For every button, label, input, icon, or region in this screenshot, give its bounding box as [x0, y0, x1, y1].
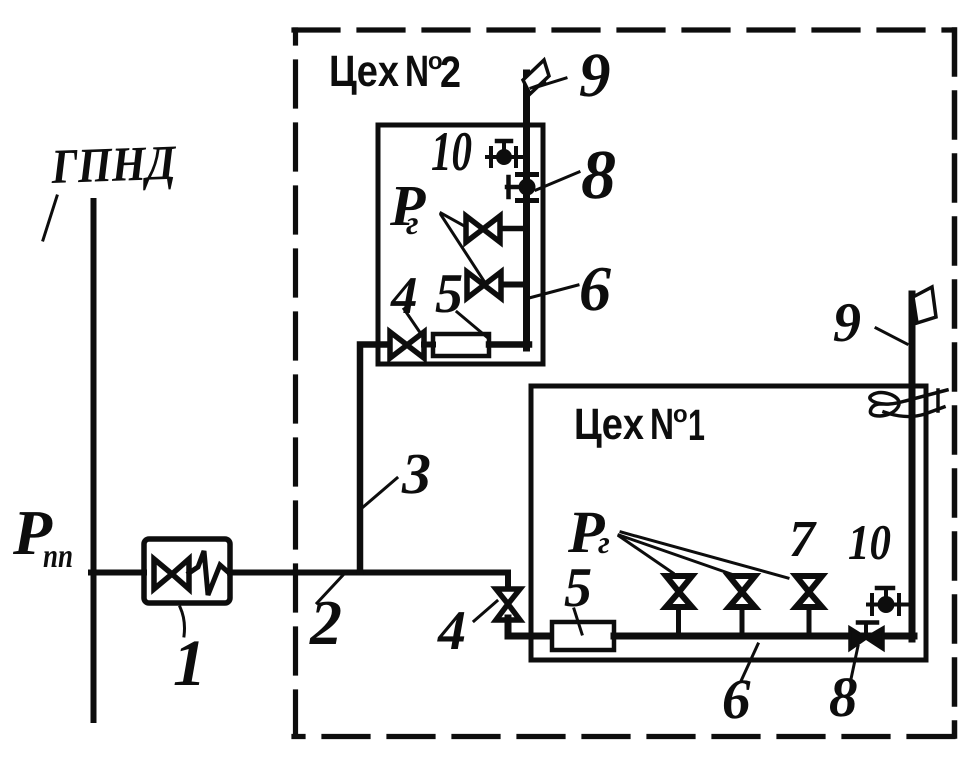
purge cock 10 of shop No1 (T-handle cock on riser stub)	[868, 588, 910, 614]
leader line to label 8 shop No2	[536, 172, 579, 190]
label Цех №2	[332, 56, 460, 95]
label 6 (shop No2)	[581, 268, 611, 311]
burner valve 2 of shop No1	[729, 576, 755, 633]
meter 5 of shop No2	[424, 334, 489, 356]
label Цех №1	[577, 409, 705, 448]
leader lines from Рг to burner valves shop No2	[441, 213, 484, 281]
wire: gas main ГПНД vertical pipe	[91, 201, 97, 720]
label 8 (shop No2)	[582, 151, 615, 198]
building outline shop No1	[531, 386, 926, 660]
wire: shop No2 internal pipe from meter to riser	[489, 341, 529, 348]
leader lines from Рг to burner valves shop No1	[619, 532, 788, 578]
leader line to label 9 shop No1	[876, 328, 907, 344]
wire: riser pipe 3 to shop No2	[360, 345, 390, 573]
label Рг shop No1	[568, 513, 609, 554]
label 5 (shop No1)	[565, 569, 591, 606]
leader line to meter 5 shop No1	[574, 609, 582, 634]
leader line to label 6 shop No1	[741, 644, 758, 681]
valve 4 of shop No1 (hourglass on inlet drop)	[496, 589, 520, 620]
leader line to label 8 shop No1	[851, 646, 858, 679]
label Рпп	[13, 512, 72, 567]
building outline shop No2	[378, 125, 543, 364]
wire: main horizontal pipe 2 from regulator to shop branch	[230, 573, 508, 591]
label 1	[175, 641, 200, 685]
regulator station 1 (box with valve and regulator zigzag)	[144, 539, 230, 603]
leader line to label 9 shop No2	[537, 78, 566, 87]
leader line to meter 5 shop No2	[457, 312, 488, 338]
label 9 (shop No1)	[834, 304, 860, 342]
label 8 (shop No1)	[830, 678, 857, 717]
wire: shop No1 floor distribution pipe 6	[614, 633, 914, 640]
leader line to label 2	[317, 573, 345, 603]
label 2	[309, 602, 340, 644]
label 6 (shop No1)	[724, 680, 751, 718]
leader line to valve 4 shop No2	[404, 309, 419, 331]
valve 4 of shop No2 (bowtie on inlet)	[390, 332, 424, 358]
label 5 (shop No2)	[436, 275, 462, 312]
leader line to label 1	[180, 607, 185, 636]
label 3	[402, 455, 430, 494]
burner valve B of shop No2 with stub	[467, 272, 525, 298]
leader line under ГПНД	[43, 196, 57, 240]
label 10 (shop No2)	[432, 133, 471, 171]
label 9 (shop No2)	[580, 54, 610, 96]
wire: main horizontal pipe from ГПНД to regulator 1	[91, 570, 144, 576]
burner valve 1 of shop No1	[666, 576, 692, 633]
label ГПНД	[50, 147, 177, 194]
hand-drawn scribble across riser at shop No1 wall	[870, 390, 947, 417]
vent flag on shop No1 riser	[913, 287, 936, 323]
burner valve 3 of shop No1 (label 7)	[796, 576, 822, 633]
leader line to valve 4 shop No1	[474, 601, 497, 621]
wire: shop No2 internal riser 6	[523, 73, 530, 348]
leader line to label 3	[362, 478, 397, 508]
boundary dashed fence of enterprise territory	[294, 30, 955, 737]
gate valve 8 of shop No2 on riser	[507, 175, 537, 201]
label 10 (shop No1)	[849, 526, 890, 560]
wire: shop No1 inlet drop to floor pipe	[508, 618, 552, 636]
leader line to label 6 shop No2	[529, 285, 578, 298]
wire: shop No1 vent riser 9	[909, 294, 916, 639]
label 7	[791, 522, 817, 556]
burner valve A of shop No2 with stub	[466, 216, 525, 242]
label Рг shop No2	[390, 187, 426, 234]
vent flag on shop No2 riser	[523, 60, 549, 94]
label 4 (shop No1)	[437, 612, 464, 649]
label 4 (shop No2)	[390, 278, 416, 313]
cock valve 8 of shop No1 on floor pipe (T-handle)	[850, 623, 883, 650]
purge cock 10 of shop No2 (T-handle cock)	[487, 141, 524, 166]
meter 5 of shop No1	[552, 622, 614, 650]
